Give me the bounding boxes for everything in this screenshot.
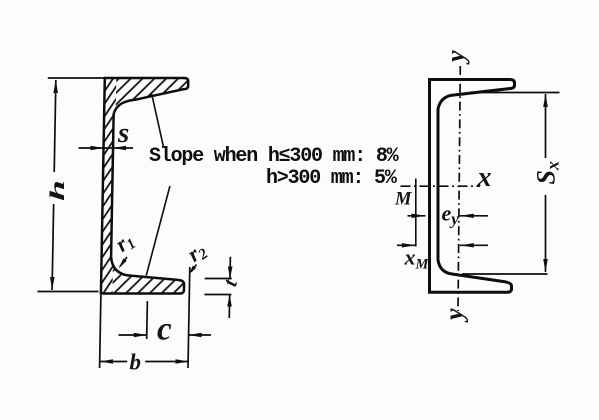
ey dimension line bbox=[408, 215, 426, 217]
t extension line lower bbox=[204, 294, 231, 296]
Sx arrow top bbox=[543, 94, 548, 107]
Sx dimension line bbox=[545, 94, 547, 158]
c dimension line right stub bbox=[189, 334, 211, 336]
b extension line left bbox=[100, 295, 101, 368]
xM arrow right bbox=[460, 243, 474, 247]
h dimension extension line top bbox=[48, 77, 105, 79]
Sx extension line bottom bbox=[462, 273, 548, 275]
t extension line upper bbox=[205, 278, 232, 280]
s arrow right bbox=[113, 146, 126, 151]
b arrow right bbox=[175, 359, 188, 364]
t dimension line upper bbox=[229, 257, 231, 279]
s arrow left bbox=[90, 146, 103, 151]
h dimension extension line bottom bbox=[37, 291, 98, 293]
right figure: channel with axes x,y and Sx, ey, xM, M bbox=[397, 66, 560, 311]
h arrow bottom bbox=[50, 277, 55, 290]
t dimension line lower bbox=[228, 295, 230, 319]
y axis (dash-dot) bbox=[458, 66, 460, 311]
xM dimension line bbox=[397, 244, 416, 246]
c arrow right bbox=[189, 333, 202, 338]
r1 leader arrow bbox=[120, 257, 127, 267]
s dimension line bbox=[79, 147, 133, 149]
b arrow left bbox=[100, 359, 113, 364]
M point tick / extension line bbox=[415, 179, 417, 247]
ey arrow right bbox=[460, 214, 474, 218]
Sx extension line top bbox=[470, 92, 560, 94]
c extension line left bbox=[146, 301, 149, 339]
t arrow lower bbox=[227, 295, 232, 307]
t arrow upper bbox=[228, 267, 233, 279]
typewriter note text line 1 bbox=[149, 145, 397, 168]
c arrow left bbox=[134, 333, 147, 338]
left channel profile outline bbox=[101, 78, 188, 294]
svg-text:M: M bbox=[394, 190, 412, 210]
svg-text:ey: ey bbox=[442, 201, 460, 229]
h arrow top bbox=[53, 80, 58, 93]
svg-text:c: c bbox=[157, 312, 172, 348]
svg-text:h: h bbox=[46, 180, 69, 201]
c dimension line left stub bbox=[118, 334, 146, 336]
h dimension line bbox=[54, 80, 56, 172]
svg-text:xM: xM bbox=[404, 245, 430, 273]
left channel hatching bbox=[89, 70, 196, 302]
left figure: channel section with h, b, c, s, t dimensions bbox=[36, 70, 236, 368]
svg-text:r1: r1 bbox=[111, 227, 140, 258]
slope leader line lower bbox=[146, 186, 170, 276]
typewriter note text line 2 bbox=[266, 167, 396, 190]
Sx arrow bottom bbox=[543, 259, 548, 272]
svg-text:Sx: Sx bbox=[532, 161, 563, 184]
svg-text:y: y bbox=[441, 50, 470, 65]
svg-text:x: x bbox=[477, 162, 492, 193]
right channel profile outline bbox=[430, 80, 515, 293]
r2 leader arrow bbox=[191, 265, 196, 272]
slope leader line upper bbox=[151, 94, 164, 146]
c / b extension line right bbox=[188, 267, 190, 368]
svg-text:r2: r2 bbox=[183, 237, 212, 269]
svg-text:y: y bbox=[440, 308, 469, 323]
x axis (dash-dot) bbox=[401, 185, 481, 187]
b dimension line bbox=[100, 361, 127, 363]
svg-text:s: s bbox=[117, 117, 129, 149]
ey arrow left bbox=[412, 214, 426, 218]
svg-text:b: b bbox=[130, 350, 142, 375]
xM arrow left bbox=[402, 243, 416, 247]
labels (hand-lettered style, serif italic) bbox=[46, 50, 563, 375]
